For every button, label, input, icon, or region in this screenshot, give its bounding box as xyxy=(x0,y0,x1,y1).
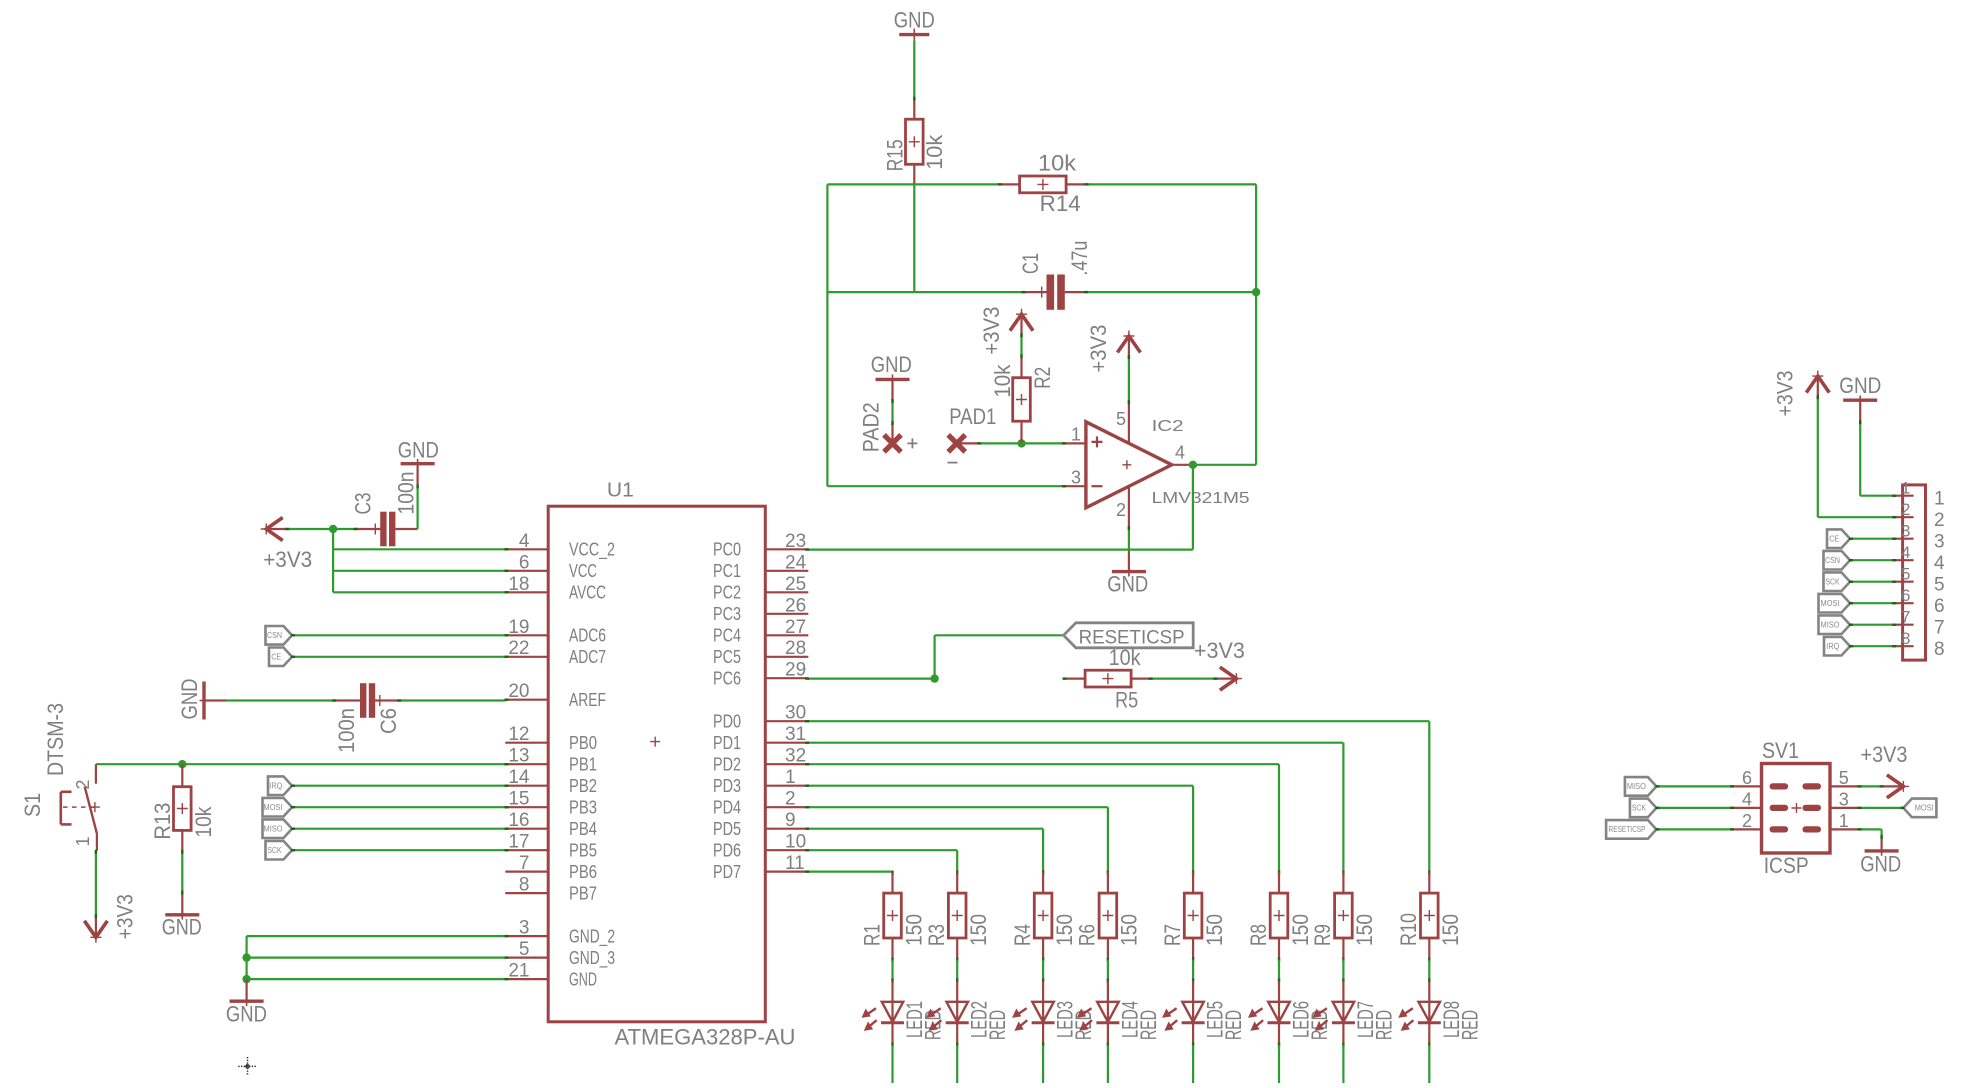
net label SCK (right connector) xyxy=(1824,572,1851,591)
pad PAD1 xyxy=(948,404,997,462)
svg-text:10: 10 xyxy=(785,832,806,853)
wire top rail right (R14 to right rail) xyxy=(1088,183,1257,185)
ground GND (op-amp V-) xyxy=(1107,550,1148,597)
wire left rail xyxy=(826,184,828,486)
svg-text:6: 6 xyxy=(1901,586,1910,605)
wire-to-pin connection nibs xyxy=(96,97,1905,979)
net label RESETICSP (SV1) xyxy=(1606,820,1656,839)
wire top rail left (to R14) xyxy=(827,183,999,185)
U1 pin 15 (PB3) xyxy=(505,789,597,818)
wire +3V3 to junction xyxy=(286,528,333,530)
supply +3V3 (right connector) xyxy=(1806,371,1829,397)
svg-text:VCC: VCC xyxy=(569,561,597,581)
wire SV1 pin5 to +3V3 xyxy=(1861,785,1884,787)
wire LED8 to bottom xyxy=(1428,1043,1430,1047)
svg-text:3: 3 xyxy=(1934,532,1945,553)
LED LED3 RED xyxy=(1014,981,1096,1045)
wire R10 to LED8 xyxy=(1428,958,1430,962)
wire SV1 pin3 to MOSI xyxy=(1861,807,1904,809)
svg-text:CSN: CSN xyxy=(267,631,282,640)
net label MISO (left) xyxy=(263,819,293,838)
wire CE to connector pin 3 xyxy=(1850,538,1893,540)
wire MISO to connector pin 7 xyxy=(1850,624,1893,626)
svg-text:+3V3: +3V3 xyxy=(263,547,312,572)
svg-text:6: 6 xyxy=(1934,596,1945,617)
wire LED6 to bottom xyxy=(1278,1043,1280,1047)
net label CSN (right connector) xyxy=(1824,551,1851,570)
svg-text:R14: R14 xyxy=(1040,191,1081,216)
svg-text:+3V3: +3V3 xyxy=(1194,638,1245,663)
svg-text:PD0: PD0 xyxy=(713,711,741,731)
svg-text:MISO: MISO xyxy=(1627,782,1646,791)
svg-text:GND: GND xyxy=(226,1001,267,1026)
wire C3 up to GND xyxy=(417,485,419,529)
wire +3V3 to op-amp pin5 xyxy=(1128,356,1130,401)
svg-text:GND: GND xyxy=(871,352,912,377)
wire U1 row to R10 xyxy=(808,720,1429,722)
svg-text:8: 8 xyxy=(1934,639,1945,660)
svg-text:SV1: SV1 xyxy=(1762,738,1799,763)
svg-text:PD4: PD4 xyxy=(713,797,741,817)
svg-text:AVCC: AVCC xyxy=(569,583,606,603)
wire +3V3 to connector pin2 xyxy=(1817,396,1819,517)
svg-text:7: 7 xyxy=(519,853,530,874)
U1 pin 24 (PC1) xyxy=(713,552,808,581)
svg-text:3: 3 xyxy=(1071,467,1081,487)
U1 pin 31 (PD1) xyxy=(713,724,808,753)
supply +3V3 (op-amp V+) xyxy=(1117,331,1140,357)
wire GND row to U1 pin5 xyxy=(247,956,506,958)
svg-text:CSN: CSN xyxy=(1825,556,1840,565)
net label MOSI (left) xyxy=(263,798,293,817)
svg-text:MOSI: MOSI xyxy=(1915,804,1934,813)
svg-text:CE: CE xyxy=(271,653,281,662)
svg-text:1: 1 xyxy=(1839,811,1849,831)
svg-text:VCC_2: VCC_2 xyxy=(569,540,615,561)
pad PAD2 xyxy=(859,402,918,452)
LED LED5 RED xyxy=(1164,981,1246,1045)
resistor R3 150 xyxy=(924,871,991,960)
svg-text:100n: 100n xyxy=(334,708,359,753)
svg-text:R13: R13 xyxy=(150,803,175,840)
connector pin 5 xyxy=(1893,565,1944,596)
wire U1 row to R7 xyxy=(808,785,1193,787)
LED LED2 RED xyxy=(928,981,1010,1045)
wire PAD1 to node A xyxy=(978,442,1021,444)
svg-text:IRQ: IRQ xyxy=(269,782,282,791)
svg-text:+3V3: +3V3 xyxy=(113,894,138,939)
svg-text:PAD2: PAD2 xyxy=(859,402,884,452)
net label CE (right connector) xyxy=(1827,529,1850,548)
wire R5 to +3V3 xyxy=(1152,677,1217,679)
svg-text:150: 150 xyxy=(966,914,991,946)
svg-text:C3: C3 xyxy=(351,493,376,515)
svg-text:5: 5 xyxy=(1934,575,1945,596)
svg-text:1: 1 xyxy=(1071,424,1081,444)
ground GND (C6, rotated) xyxy=(177,679,226,720)
svg-text:150: 150 xyxy=(1117,914,1142,946)
wire junction up to flag xyxy=(933,635,935,678)
connector pin 6 xyxy=(1893,586,1944,617)
svg-text:MISO: MISO xyxy=(1821,621,1840,630)
svg-text:GND_2: GND_2 xyxy=(569,926,615,947)
wire LED7 to bottom xyxy=(1342,1043,1344,1047)
wire R4 to LED3 xyxy=(1042,958,1044,962)
wire R6 to LED4 xyxy=(1107,958,1109,962)
svg-text:ICSP: ICSP xyxy=(1764,853,1809,878)
U1 pin 12 (PB0) xyxy=(505,724,597,753)
svg-text:PC0: PC0 xyxy=(713,540,741,560)
U1 pin 1 (PD3) xyxy=(713,767,808,796)
svg-text:R6: R6 xyxy=(1075,924,1100,946)
wire second rail right (C1 to right rail) xyxy=(1087,291,1256,293)
resistor R15 10k xyxy=(882,98,947,185)
svg-text:PC1: PC1 xyxy=(713,561,741,581)
IC U1 ATMEGA328P-AU body xyxy=(548,480,795,1050)
wire PB1 row (switch to U1 pin13) xyxy=(96,763,505,765)
svg-text:DTSM-3: DTSM-3 xyxy=(43,703,68,776)
wire R8 to LED6 xyxy=(1278,958,1280,962)
wire MISO to SV1 pin6 xyxy=(1656,785,1731,787)
svg-text:GND: GND xyxy=(1839,373,1881,398)
wire IRQ to connector pin 8 xyxy=(1850,645,1893,647)
wire GND to connector pin1 xyxy=(1859,421,1861,496)
svg-text:5: 5 xyxy=(1839,768,1849,788)
wire to U1 pin18 xyxy=(333,591,505,593)
svg-text:150: 150 xyxy=(1202,914,1227,946)
resistor R4 150 xyxy=(1010,871,1077,960)
wire U1 row to R4 xyxy=(808,828,1043,830)
svg-text:1: 1 xyxy=(785,767,796,788)
U1 pin 9 (PD5) xyxy=(713,810,808,839)
svg-text:2: 2 xyxy=(73,779,93,789)
net label MISO (SV1) xyxy=(1625,777,1657,796)
svg-text:2: 2 xyxy=(1901,500,1910,519)
wire LED2 to bottom xyxy=(956,1043,958,1047)
svg-text:PB6: PB6 xyxy=(569,862,597,882)
net label MOSI (SV1 right) xyxy=(1903,799,1936,818)
ground GND (bottom left) xyxy=(226,979,267,1026)
resistor R9 150 xyxy=(1310,871,1377,960)
svg-text:10k: 10k xyxy=(990,364,1015,398)
connector SV1 ICSP body xyxy=(1762,738,1831,878)
wire output down to PC0 row xyxy=(1192,465,1194,550)
svg-text:31: 31 xyxy=(785,724,806,745)
svg-text:4: 4 xyxy=(1901,543,1910,562)
SV1 pin 5 xyxy=(1830,768,1861,788)
supply +3V3 (left, to U1 VCC) xyxy=(261,518,287,541)
svg-text:R4: R4 xyxy=(1010,924,1035,946)
svg-text:+3V3: +3V3 xyxy=(1773,371,1798,417)
SV1 pin 6 xyxy=(1731,768,1762,788)
svg-text:PD3: PD3 xyxy=(713,776,741,796)
svg-text:R9: R9 xyxy=(1310,924,1335,946)
svg-text:5: 5 xyxy=(1116,409,1126,429)
wire left rail to op-amp -IN xyxy=(827,485,1063,487)
U1 pin 27 (PC4) xyxy=(713,617,808,646)
svg-text:3: 3 xyxy=(1901,522,1910,541)
U1 pin 3 (GND_2) xyxy=(505,918,615,948)
svg-text:150: 150 xyxy=(1438,914,1463,946)
svg-text:150: 150 xyxy=(901,914,926,946)
svg-text:28: 28 xyxy=(785,638,806,659)
U1 pin 32 (PD2) xyxy=(713,746,808,775)
wire LED5 to bottom xyxy=(1192,1043,1194,1047)
wire LED3 to bottom xyxy=(1042,1043,1044,1047)
svg-text:PB7: PB7 xyxy=(569,883,597,903)
svg-text:14: 14 xyxy=(508,767,530,788)
svg-text:MOSI: MOSI xyxy=(264,803,283,812)
U1 pin 16 (PB4) xyxy=(505,810,597,839)
svg-text:30: 30 xyxy=(785,703,806,724)
U1 pin 4 (VCC_2) xyxy=(505,531,615,561)
svg-text:18: 18 xyxy=(508,574,529,595)
wire LED4 to bottom xyxy=(1107,1043,1109,1047)
junction R13 / PB1 row xyxy=(178,760,186,768)
svg-text:+3V3: +3V3 xyxy=(1861,742,1908,767)
SV1 pin 3 xyxy=(1830,789,1861,809)
wire MOSI to connector pin 6 xyxy=(1850,602,1893,604)
svg-text:10k: 10k xyxy=(1109,645,1142,670)
LED LED4 RED xyxy=(1079,981,1161,1045)
svg-text:27: 27 xyxy=(785,617,806,638)
svg-text:1: 1 xyxy=(1901,479,1910,498)
svg-text:25: 25 xyxy=(785,574,806,595)
svg-text:150: 150 xyxy=(1352,914,1377,946)
U1 pin 29 (PC6) xyxy=(713,660,808,689)
svg-text:9: 9 xyxy=(785,810,796,831)
svg-text:GND: GND xyxy=(177,679,202,720)
resistor R13 10k xyxy=(150,764,216,851)
svg-text:6: 6 xyxy=(519,552,530,573)
wire GND to C6 xyxy=(226,699,333,701)
svg-text:8: 8 xyxy=(519,875,530,896)
wire MISO to U1 pin16 xyxy=(292,828,505,830)
wire SCK to U1 pin17 xyxy=(292,849,505,851)
U1 pin 11 (PD7) xyxy=(713,853,808,882)
wire MOSI to U1 pin15 xyxy=(292,806,505,808)
U1 pin 6 (VCC) xyxy=(505,552,597,581)
capacitor C6 100n xyxy=(333,683,401,753)
svg-text:RED: RED xyxy=(1136,1010,1161,1040)
svg-text:PC4: PC4 xyxy=(713,626,741,646)
svg-text:CE: CE xyxy=(1829,535,1839,544)
U1 pin 2 (PD4) xyxy=(713,789,808,818)
ground GND (right connector) xyxy=(1839,373,1881,421)
wire R9 to LED7 xyxy=(1342,958,1344,962)
svg-text:2: 2 xyxy=(1116,500,1126,520)
svg-text:19: 19 xyxy=(508,617,529,638)
net label RESETICSP xyxy=(1064,623,1194,649)
svg-text:GND: GND xyxy=(1860,852,1901,877)
svg-text:PB4: PB4 xyxy=(569,819,597,839)
net label CE (left) xyxy=(269,648,292,667)
svg-text:RESETICSP: RESETICSP xyxy=(1609,825,1646,834)
svg-text:S1: S1 xyxy=(20,793,45,817)
svg-text:RED: RED xyxy=(1371,1010,1396,1040)
wire to U1 pin6 xyxy=(333,570,505,572)
net label MOSI (right connector) xyxy=(1819,594,1851,613)
wire SCK to connector pin 5 xyxy=(1850,581,1893,583)
capacitor C3 100n xyxy=(333,472,418,547)
capacitor C1 .47u xyxy=(1018,241,1092,310)
resistor R7 150 xyxy=(1160,871,1227,960)
svg-text:GND_3: GND_3 xyxy=(569,948,615,969)
net label IRQ (left) xyxy=(268,776,292,795)
connector pin 8 xyxy=(1893,629,1944,660)
svg-text:ADC6: ADC6 xyxy=(569,626,606,646)
svg-text:C6: C6 xyxy=(376,708,401,734)
svg-text:.47u: .47u xyxy=(1067,241,1092,276)
svg-text:16: 16 xyxy=(508,810,529,831)
svg-text:12: 12 xyxy=(508,724,529,745)
U1 pin 22 (ADC7) xyxy=(505,638,606,667)
svg-text:C1: C1 xyxy=(1018,253,1043,274)
svg-text:2: 2 xyxy=(785,789,796,810)
svg-text:32: 32 xyxy=(785,746,806,767)
svg-text:5: 5 xyxy=(519,939,530,960)
svg-text:PB2: PB2 xyxy=(569,776,597,796)
wire IRQ to U1 pin14 xyxy=(292,785,505,787)
wire R1 to LED1 xyxy=(891,958,893,962)
junction op-amp output xyxy=(1189,461,1197,469)
junction right rail / second rail xyxy=(1252,288,1260,296)
U1 pin 8 (PB7) xyxy=(505,875,597,904)
svg-text:11: 11 xyxy=(785,853,805,874)
svg-text:SCK: SCK xyxy=(1826,578,1841,587)
U1 pin 30 (PD0) xyxy=(713,703,808,732)
svg-text:29: 29 xyxy=(785,660,806,681)
svg-text:21: 21 xyxy=(508,961,529,982)
net label SCK (left) xyxy=(266,841,293,860)
svg-text:PB5: PB5 xyxy=(569,840,597,860)
U1 pin 21 (GND) xyxy=(505,961,597,990)
wire SV1 pin1 to GND xyxy=(1861,828,1882,830)
svg-text:GND: GND xyxy=(1107,572,1148,597)
svg-text:150: 150 xyxy=(1052,914,1077,946)
svg-text:GND: GND xyxy=(162,915,202,940)
resistor R1 150 xyxy=(859,871,926,960)
svg-text:RED: RED xyxy=(1221,1010,1246,1040)
LED LED1 RED xyxy=(864,981,946,1045)
wire U1.29 to junction xyxy=(808,677,934,679)
wire second rail left (to C1) xyxy=(827,291,1022,293)
svg-text:8: 8 xyxy=(1901,629,1910,648)
wire VCC feed down xyxy=(332,529,334,592)
svg-text:13: 13 xyxy=(508,746,529,767)
wire U1 row to R8 xyxy=(808,763,1279,765)
svg-text:2: 2 xyxy=(1742,811,1752,831)
svg-text:150: 150 xyxy=(1288,914,1313,946)
svg-text:PC2: PC2 xyxy=(713,583,741,603)
svg-text:20: 20 xyxy=(508,681,529,702)
net label MISO (right connector) xyxy=(1819,615,1851,634)
sheet origin cross xyxy=(238,1057,257,1076)
wire LED1 to bottom xyxy=(891,1043,893,1047)
U1 pin 13 (PB1) xyxy=(505,746,597,775)
connector JP1 body xyxy=(1903,485,1926,660)
svg-text:R3: R3 xyxy=(924,924,949,946)
resistor R2 10k xyxy=(990,357,1055,443)
svg-text:PC6: PC6 xyxy=(713,668,741,688)
svg-text:ATMEGA328P-AU: ATMEGA328P-AU xyxy=(615,1025,796,1050)
wire to U1 pin4 xyxy=(333,548,505,550)
svg-text:PC3: PC3 xyxy=(713,604,741,624)
svg-text:10k: 10k xyxy=(1038,151,1077,176)
wire U1 row to R1 xyxy=(808,870,892,872)
svg-text:10k: 10k xyxy=(191,806,216,838)
net label SCK (SV1) xyxy=(1630,799,1657,818)
svg-text:PD2: PD2 xyxy=(713,754,741,774)
svg-text:PD5: PD5 xyxy=(713,819,741,839)
wire R15 column (top rail to second rail) xyxy=(913,184,915,292)
wire node A to op-amp +IN xyxy=(1022,442,1064,444)
ground GND (PAD2) xyxy=(871,352,912,385)
wire right rail xyxy=(1255,184,1257,464)
svg-text:PB1: PB1 xyxy=(569,754,597,774)
wire R13 to GND xyxy=(181,851,183,894)
wire PC0 net (U1.23 to op-amp output) xyxy=(808,548,1193,550)
connector pin 1 xyxy=(1893,479,1944,510)
wire U1 row to R9 xyxy=(808,742,1343,744)
connector pin 2 xyxy=(1893,500,1944,531)
svg-text:AREF: AREF xyxy=(569,690,606,710)
U1 pin 20 (AREF) xyxy=(505,681,606,710)
net label IRQ (right connector) xyxy=(1824,637,1850,656)
wire R7 to LED5 xyxy=(1192,958,1194,962)
wire CSN to connector pin 4 xyxy=(1850,559,1893,561)
svg-text:7: 7 xyxy=(1901,608,1910,627)
svg-text:SCK: SCK xyxy=(1632,804,1647,813)
wire GND to R15 xyxy=(913,40,915,97)
svg-text:10k: 10k xyxy=(922,134,947,170)
svg-text:GND: GND xyxy=(398,438,439,463)
connector pin 7 xyxy=(1893,608,1944,639)
wire C6 to U1 pin20 xyxy=(400,699,505,701)
LED LED6 RED xyxy=(1250,981,1332,1045)
SV1 pin 1 xyxy=(1830,811,1861,831)
U1 pin 17 (PB5) xyxy=(505,832,597,861)
ground GND (SV1) xyxy=(1860,836,1901,877)
wire U1 row to R3 xyxy=(808,849,957,851)
svg-text:+3V3: +3V3 xyxy=(1086,325,1111,373)
svg-text:PD6: PD6 xyxy=(713,840,741,860)
svg-text:23: 23 xyxy=(785,531,806,552)
U1 pin 23 (PC0) xyxy=(713,531,808,560)
U1 pin 18 (AVCC) xyxy=(505,574,606,603)
svg-text:R15: R15 xyxy=(882,139,907,171)
LED LED7 RED xyxy=(1314,981,1396,1045)
svg-text:R10: R10 xyxy=(1396,913,1421,946)
wire op-amp pin2 down xyxy=(1128,529,1130,550)
svg-text:RED: RED xyxy=(1457,1010,1482,1040)
wire GND row to U1 pin21 xyxy=(247,978,506,980)
svg-text:17: 17 xyxy=(508,832,529,853)
svg-text:2: 2 xyxy=(1934,510,1945,531)
resistor R14 10k xyxy=(999,151,1088,217)
svg-text:PC5: PC5 xyxy=(713,647,741,667)
svg-text:5: 5 xyxy=(1901,565,1910,584)
svg-text:LMV321M5: LMV321M5 xyxy=(1152,490,1250,507)
ground GND (R13) xyxy=(162,894,202,940)
wire GND vertical xyxy=(246,936,248,979)
supply +3V3 (below S1) xyxy=(84,917,107,943)
svg-text:GND: GND xyxy=(569,969,597,989)
U1 pin 25 (PC2) xyxy=(713,574,808,603)
supply +3V3 (SV1) xyxy=(1883,775,1909,798)
svg-text:1: 1 xyxy=(73,836,93,846)
svg-text:PAD1: PAD1 xyxy=(949,404,996,429)
